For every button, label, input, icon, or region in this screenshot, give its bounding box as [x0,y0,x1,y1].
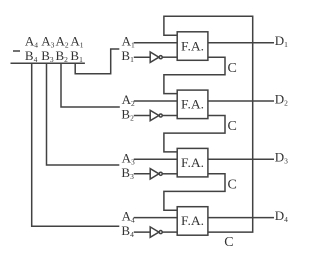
svg-text:F.A.: F.A. [181,155,204,170]
svg-text:F.A.: F.A. [181,97,204,112]
svg-text:F.A.: F.A. [181,213,204,228]
svg-text:F.A.: F.A. [181,38,204,53]
svg-text:C: C [228,61,237,76]
svg-text:C: C [224,235,233,250]
svg-text:C: C [228,119,237,134]
svg-text:C: C [228,177,237,192]
